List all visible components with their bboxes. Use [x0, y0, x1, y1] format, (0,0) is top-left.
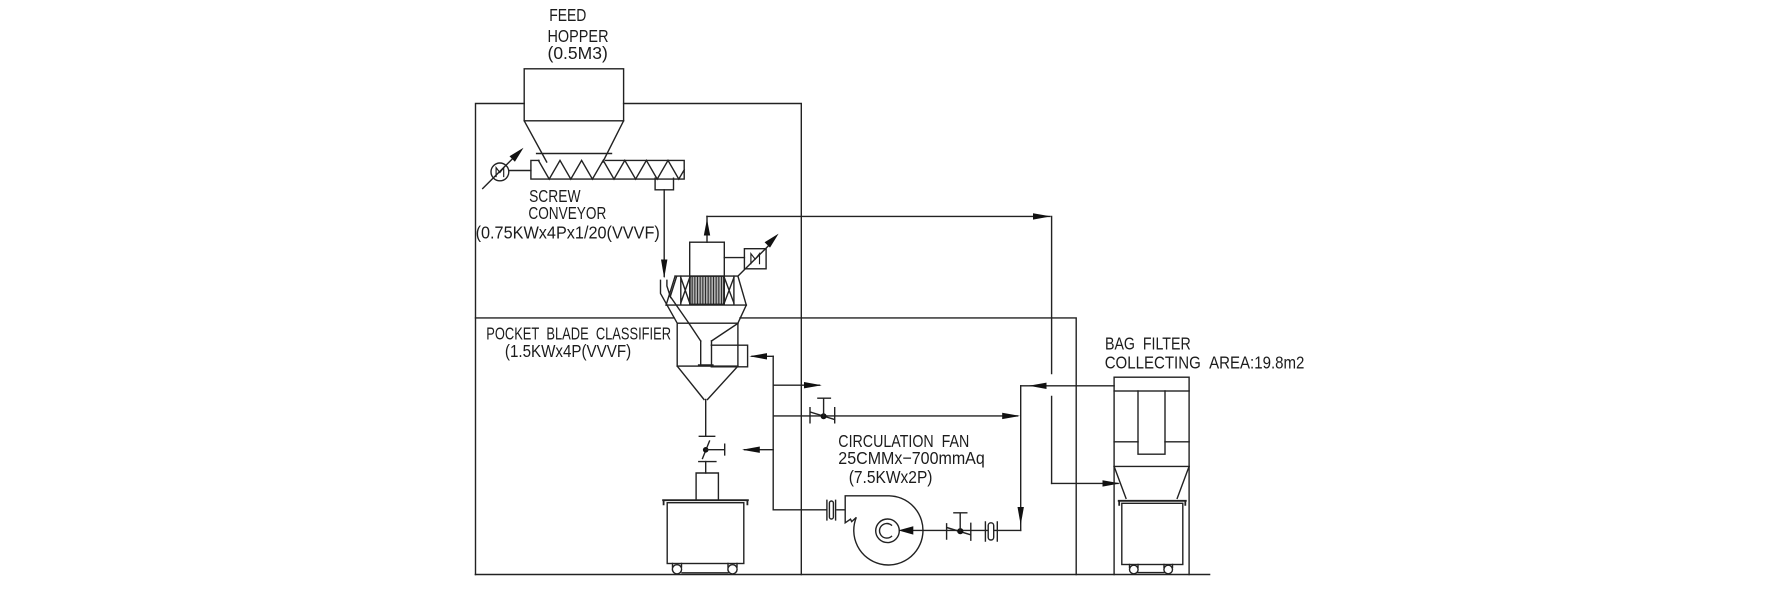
svg-text:(0.75KWx4Px1/20(VVVF): (0.75KWx4Px1/20(VVVF) — [476, 223, 660, 243]
product container casters — [672, 564, 737, 574]
motor M1 (screw conveyor VVVF motor) — [483, 148, 531, 189]
ground line — [476, 574, 1210, 576]
classifier motor link — [724, 257, 744, 259]
classifier feed inlet pocket chute — [661, 277, 690, 324]
product container neck — [696, 473, 718, 500]
svg-text:25CMMx−700mmAq: 25CMMx−700mmAq — [838, 448, 985, 468]
svg-text:COLLECTING AREA:19.8m2: COLLECTING AREA:19.8m2 — [1105, 352, 1305, 372]
wire cone apex to rotary valve — [705, 400, 707, 437]
product container body — [667, 503, 744, 564]
bag filter dust container lip — [1119, 501, 1186, 505]
svg-text:BAG FILTER: BAG FILTER — [1105, 334, 1191, 354]
wire fan outlet to riser — [773, 509, 845, 511]
flex connector F2 (fan suction) — [985, 522, 997, 541]
screw conveyor discharge spout — [655, 178, 673, 190]
wire into bag filter hopper inlet — [1052, 480, 1121, 486]
bag filter BF1 top cap — [1114, 377, 1189, 391]
feed hopper FH1 — [524, 69, 623, 162]
bag filter hopper — [1114, 466, 1189, 498]
wire purge air arrow to rotary valve — [742, 447, 773, 453]
svg-text:FEED: FEED — [549, 5, 586, 25]
svg-text:CONVEYOR: CONVEYOR — [528, 203, 606, 223]
wire secondary air arrow into box — [749, 353, 773, 359]
flex connector F1 (fan outlet) — [827, 500, 836, 520]
classifier casing (rotor housing) — [666, 276, 746, 305]
classifier right bearing X — [724, 276, 734, 304]
fan hub circles — [876, 519, 900, 543]
classifier vent line up — [704, 216, 710, 242]
circulation fan FN1 volute — [845, 496, 923, 565]
svg-text:(1.5KWx4P(VVVF): (1.5KWx4P(VVVF) — [505, 341, 631, 361]
wire fan suction line — [898, 526, 1020, 534]
wire feed drop line into classifier — [661, 190, 667, 278]
classifier bottom cone — [677, 366, 738, 399]
classifier rotor (hatched block) — [690, 276, 725, 304]
butterfly valve V1 on bypass line — [810, 398, 835, 423]
rotary discharge valve V3 — [699, 436, 725, 461]
pocket blade classifier PBC1 top drive box — [690, 242, 725, 276]
wire stub arrow to vent room — [773, 382, 822, 388]
butterfly valve V2 on suction line — [947, 513, 971, 540]
screw conveyor SC1 body — [531, 160, 684, 179]
wire enclosure box 2 (right room, top edge y=318 and right edge x=1076) — [476, 318, 1077, 575]
classifier inner cone and tube — [689, 323, 738, 365]
wire vent to bag filter top run — [707, 213, 1051, 219]
bag filter dust container — [1122, 503, 1183, 564]
classifier upper funnel right side — [738, 305, 746, 323]
classifier middle body rect — [677, 323, 738, 366]
wire outer enclosure box 1 (left room) — [476, 104, 802, 575]
classifier left bearing X — [681, 276, 690, 304]
wire valve to product container — [705, 462, 707, 473]
bag filter body and legs — [1114, 391, 1189, 575]
wire bypass line with valve to fan suction — [773, 413, 1020, 419]
wire suction riser x=1020.7 with down arrow — [1018, 386, 1024, 531]
bag filter container casters — [1130, 565, 1173, 574]
wire bag filter outlet run to riser — [1021, 383, 1114, 389]
product container lip — [663, 500, 748, 504]
classifier secondary air inlet box — [711, 345, 747, 367]
svg-text:(7.5KWx2P): (7.5KWx2P) — [849, 467, 933, 487]
motor M2 box (classifier VVVF motor) — [739, 234, 779, 276]
svg-text:(0.5M3): (0.5M3) — [548, 43, 608, 63]
wire vertical drop x=1051.6 (with crossing gap) — [1051, 216, 1053, 483]
wire fan discharge riser x=773 — [772, 356, 774, 510]
